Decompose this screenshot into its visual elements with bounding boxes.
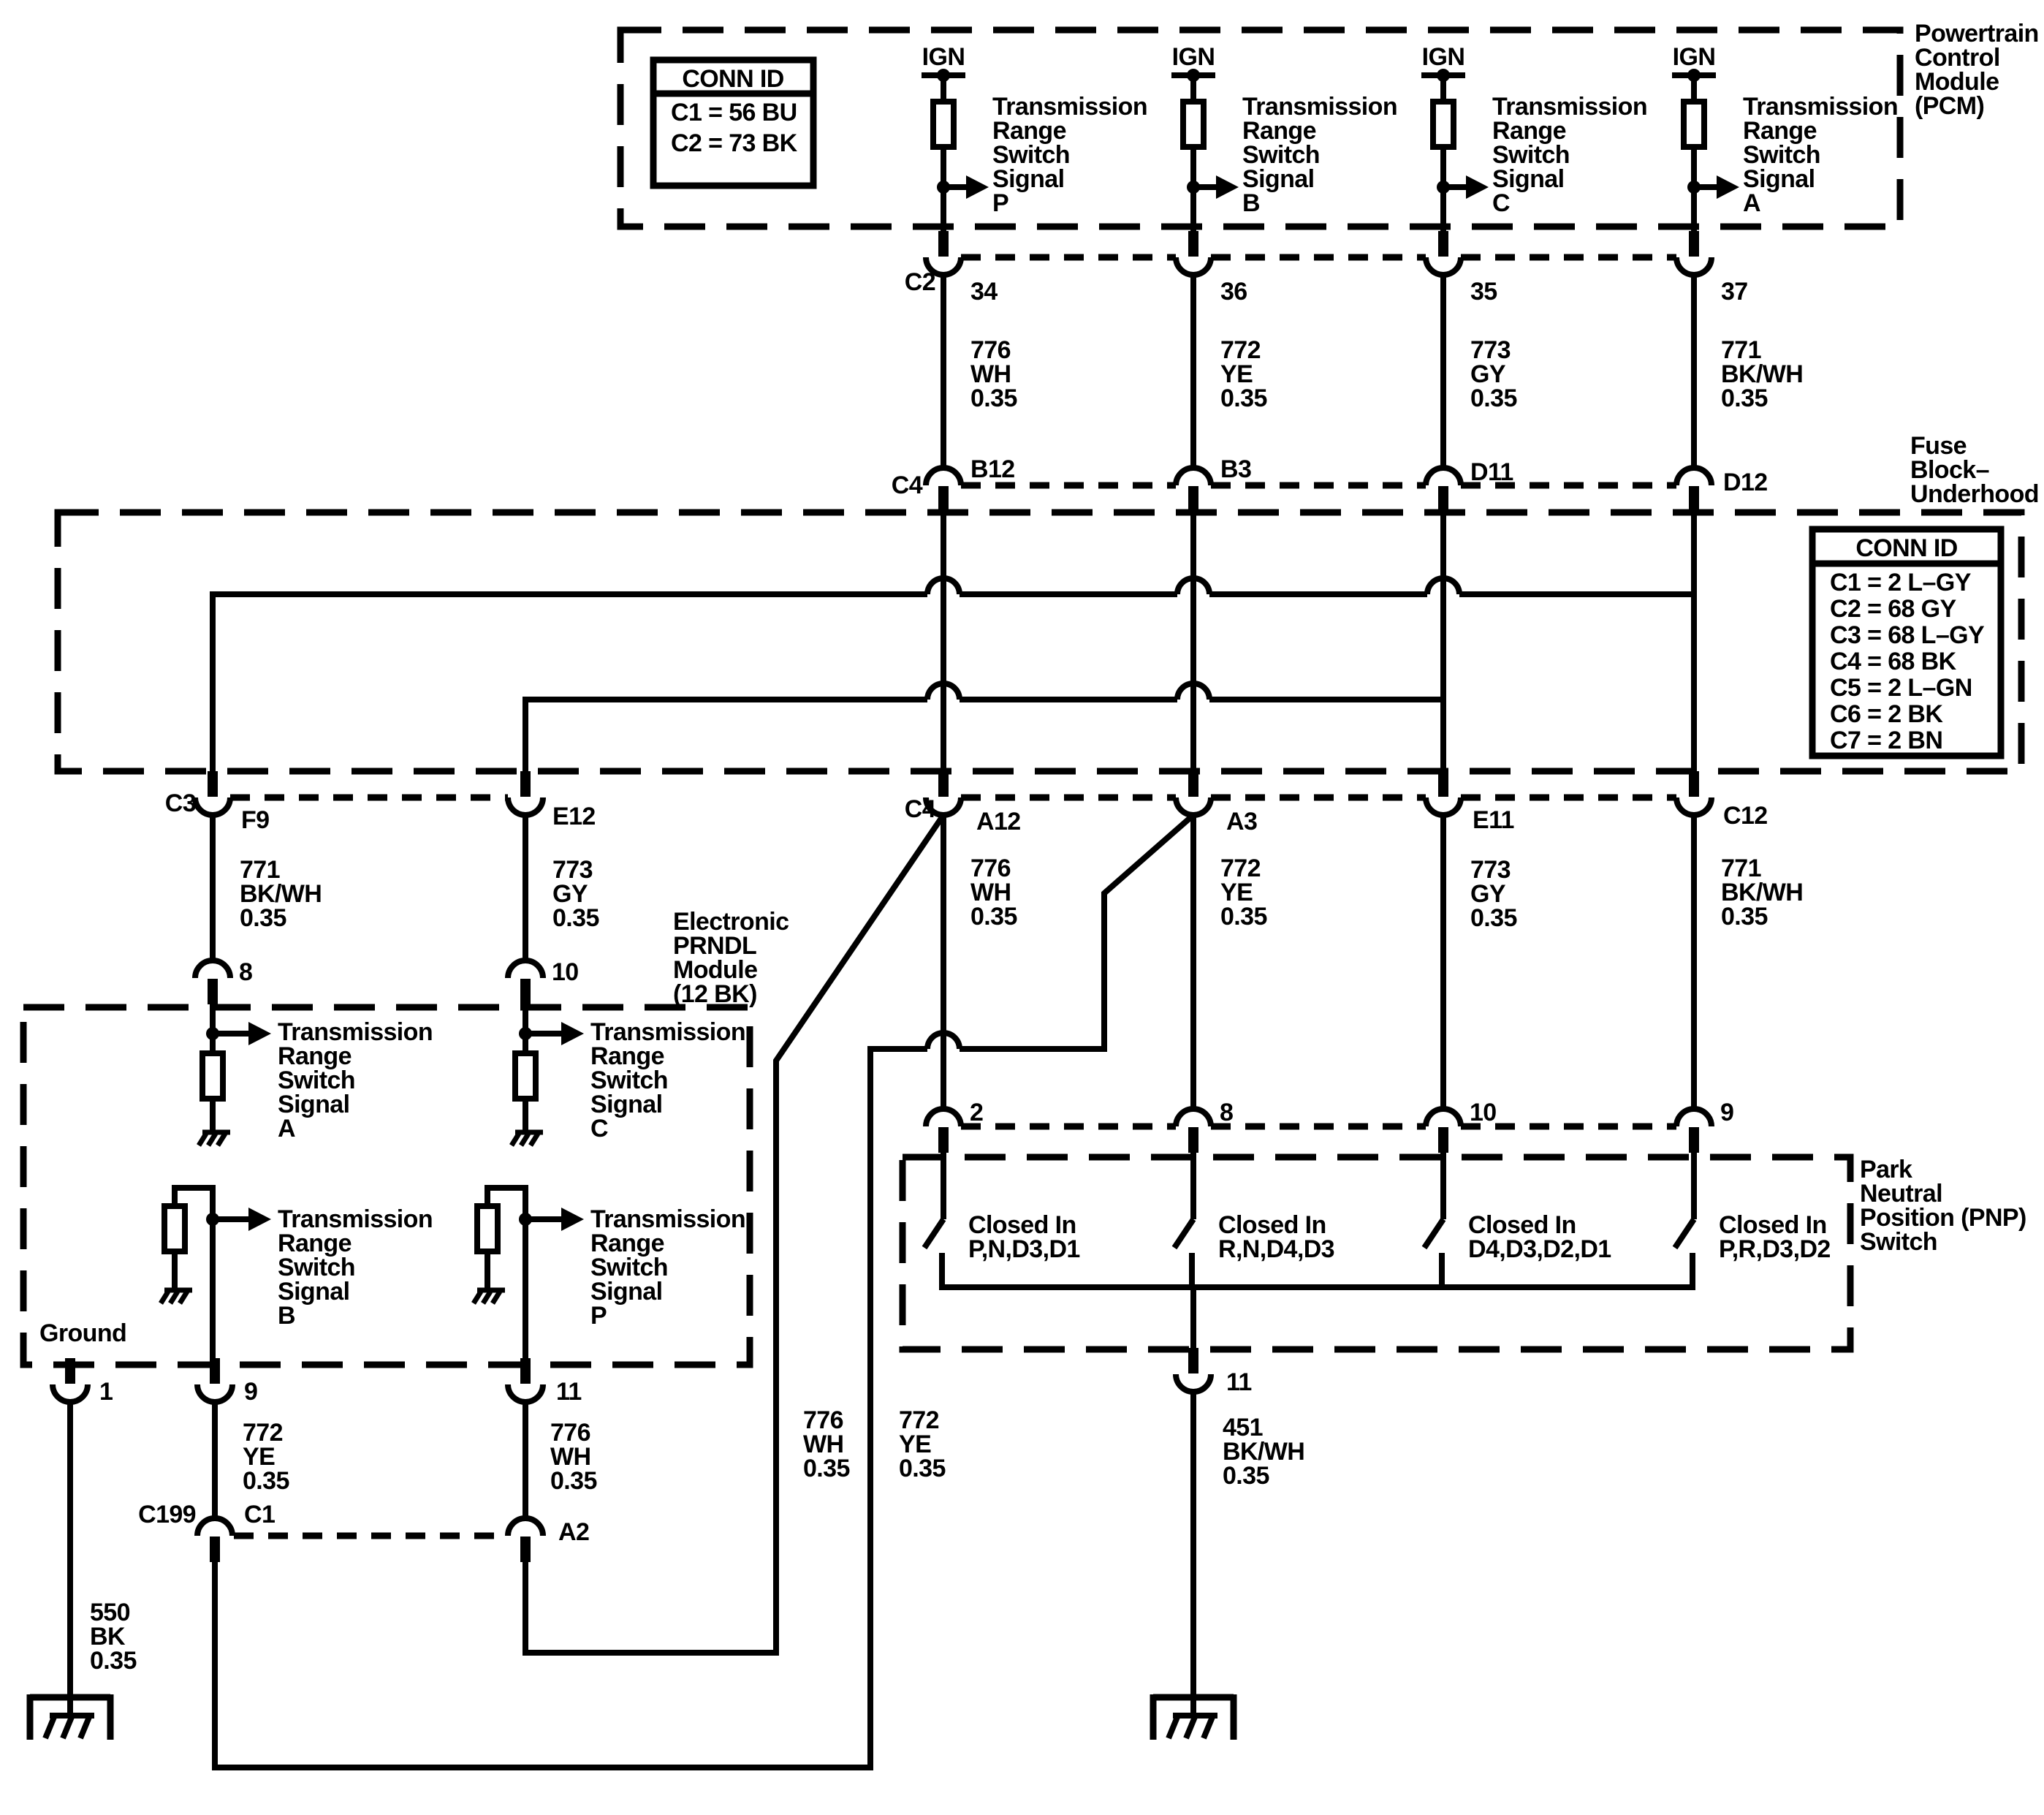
svg-text:E11: E11	[1473, 806, 1514, 834]
wire resistor to ground B	[172, 1251, 178, 1290]
svg-text:IGN: IGN	[922, 43, 965, 71]
switch blade 1	[924, 1219, 943, 1248]
svg-text:8: 8	[1220, 1099, 1233, 1126]
resistor signal C	[515, 1053, 536, 1099]
svg-text:IGN: IGN	[1172, 43, 1215, 71]
connector C199 pin A2	[520, 1537, 531, 1562]
signal arrow P	[519, 1213, 532, 1226]
resistor signal A	[202, 1053, 223, 1099]
svg-text:36: 36	[1220, 278, 1247, 306]
PNP connector dashed row	[961, 1124, 1176, 1130]
PNP switch box (dashed)	[903, 1157, 1850, 1349]
signal arrow A	[206, 1027, 219, 1040]
svg-text:9: 9	[244, 1378, 257, 1406]
PCM CONN ID box	[653, 60, 813, 186]
wire resistor to connector col2	[1190, 147, 1196, 232]
connector pin 10	[520, 979, 531, 1004]
svg-text:1: 1	[99, 1378, 113, 1406]
C4 lower dashed row	[961, 795, 1176, 801]
connector pin 8	[208, 979, 218, 1004]
switch blade 4	[1675, 1219, 1694, 1248]
svg-text:A2: A2	[558, 1518, 589, 1546]
wire col4 through fuse block	[1691, 512, 1697, 773]
IGN supply bar col1	[922, 72, 965, 78]
wire IGN to resistor col4	[1691, 75, 1697, 102]
resistor pull-up col3	[1433, 102, 1454, 147]
C2 connector dashed row	[961, 254, 1176, 261]
svg-text:CONN ID: CONN ID	[682, 65, 783, 93]
wire top tee B	[175, 1188, 213, 1206]
switch blade 2	[1174, 1219, 1193, 1248]
C4 upper dashed row	[961, 482, 1176, 489]
connector C4 pin B12	[938, 486, 949, 512]
svg-text:Closed InP,R,D3,D2: Closed InP,R,D3,D2	[1719, 1211, 1831, 1263]
connector C4 pin A12	[938, 771, 949, 797]
connector C4 pin A3	[1188, 771, 1198, 797]
signal arrow col2	[1187, 181, 1200, 194]
signal arrow B	[206, 1213, 219, 1226]
connector C4 pin D11	[1438, 486, 1448, 512]
svg-text:B12: B12	[970, 455, 1015, 483]
wire col2 through fuse block	[1190, 512, 1196, 773]
C3 dashed row	[230, 795, 508, 801]
switch top contact 1	[941, 1153, 946, 1219]
connector C2 pin 36	[1188, 231, 1198, 257]
wire bus to pin 11	[1190, 1287, 1196, 1349]
wire A12 to PNP pin 2	[941, 815, 946, 1110]
connector C3 pin F9	[208, 771, 218, 797]
wire A3 to PNP pin 8	[1190, 815, 1196, 1110]
wire IGN to resistor col2	[1190, 75, 1196, 102]
connector C4 pin C12	[1689, 771, 1699, 797]
signal arrow col1	[937, 181, 950, 194]
signal arrow col3	[1437, 181, 1450, 194]
connector C2 pin 37	[1689, 231, 1699, 257]
wire pin to junction C	[523, 1004, 528, 1053]
wire F9 to pin 8	[210, 815, 216, 961]
switch top contact 3	[1440, 1153, 1446, 1219]
wire 771 col4 upper	[1691, 275, 1697, 469]
wire pin9 to C199	[212, 1402, 218, 1519]
svg-text:Closed InP,N,D3,D1: Closed InP,N,D3,D1	[968, 1211, 1080, 1263]
connector C4 pin D12	[1689, 486, 1699, 512]
wire col3 through fuse block	[1440, 512, 1446, 773]
connector PNP pin 2	[938, 1127, 949, 1153]
svg-text:C4: C4	[905, 795, 936, 823]
svg-text:Closed InR,N,D4,D3: Closed InR,N,D4,D3	[1218, 1211, 1334, 1263]
connector C4 pin E11	[1438, 771, 1448, 797]
connector C2 pin 35	[1438, 231, 1448, 257]
svg-text:11: 11	[556, 1378, 582, 1406]
resistor signal B	[164, 1206, 185, 1251]
connector PNP pin 11	[1188, 1348, 1198, 1373]
resistor signal P	[477, 1206, 498, 1251]
PRNDL module box (dashed)	[23, 1007, 750, 1365]
svg-text:8: 8	[239, 958, 252, 986]
svg-text:C1: C1	[244, 1501, 275, 1528]
connector C2 pin 34	[938, 231, 949, 257]
switch blade 3	[1424, 1219, 1443, 1248]
ground symbol A	[202, 1130, 230, 1135]
C199 dashed row	[234, 1533, 508, 1539]
connector PNP pin 10	[1438, 1127, 1448, 1153]
IGN supply bar col3	[1421, 72, 1465, 78]
svg-text:776WH0.35: 776WH0.35	[970, 336, 1017, 412]
svg-text:A3: A3	[1226, 808, 1257, 835]
fuse internal wire 773 horizontal	[525, 700, 927, 773]
connector pin 11	[520, 1358, 531, 1384]
fuse internal wire 771 horizontal	[213, 594, 927, 773]
wire C12 to PNP pin 9	[1691, 815, 1697, 1110]
svg-text:C2 = 73 BK: C2 = 73 BK	[671, 129, 798, 157]
svg-text:2: 2	[970, 1099, 983, 1126]
ground symbol P	[477, 1288, 505, 1293]
svg-text:776WH0.35: 776WH0.35	[970, 855, 1017, 931]
resistor pull-up col4	[1684, 102, 1704, 147]
signal arrow C	[519, 1027, 532, 1040]
svg-text:10: 10	[1470, 1099, 1497, 1126]
wire resistor to connector col4	[1691, 147, 1697, 232]
svg-text:B3: B3	[1220, 455, 1251, 483]
svg-text:C12: C12	[1723, 802, 1768, 830]
wire main vertical B	[210, 1185, 216, 1359]
wire resistor to ground C	[523, 1099, 528, 1132]
wire 772 YE lower run	[215, 1049, 927, 1767]
wire IGN to resistor col1	[941, 75, 946, 102]
ground G103	[30, 1694, 110, 1701]
wire E11 to PNP pin 10	[1440, 815, 1446, 1110]
PNP common bus	[942, 1253, 1692, 1287]
svg-text:Ground: Ground	[39, 1319, 126, 1347]
switch top contact 2	[1190, 1153, 1196, 1219]
wire 772 YE diagonal from A3	[960, 815, 1193, 1049]
PCM module box (dashed)	[620, 30, 1900, 227]
svg-text:D11: D11	[1470, 458, 1513, 486]
svg-text:F9: F9	[241, 806, 269, 834]
signal arrow col4	[1687, 181, 1701, 194]
ground G107	[1153, 1694, 1234, 1701]
connector C199 pin C1	[210, 1537, 220, 1562]
svg-text:11: 11	[1226, 1368, 1252, 1396]
wire 776 col1 upper	[941, 275, 946, 469]
connector pin 1	[65, 1358, 75, 1384]
ground symbol B	[164, 1288, 192, 1293]
svg-text:D12: D12	[1723, 469, 1768, 496]
wire resistor to ground P	[485, 1251, 490, 1290]
wire E12 to pin 10	[523, 815, 528, 961]
svg-text:9: 9	[1720, 1099, 1733, 1126]
IGN supply bar col4	[1672, 72, 1716, 78]
svg-text:C1 = 56 BU: C1 = 56 BU	[671, 99, 797, 126]
connector PNP pin 9	[1689, 1127, 1699, 1153]
svg-text:CONN ID: CONN ID	[1855, 534, 1957, 562]
svg-text:776WH0.35: 776WH0.35	[550, 1419, 597, 1495]
connector C4 pin B3	[1188, 486, 1198, 512]
resistor pull-up col1	[933, 102, 954, 147]
svg-text:IGN: IGN	[1673, 43, 1716, 71]
switch bottom contact 2	[1189, 1253, 1195, 1287]
svg-text:C2: C2	[905, 268, 935, 296]
ground symbol C	[515, 1130, 543, 1135]
Fuse CONN ID box	[1812, 529, 2001, 756]
wire pin1 to ground	[67, 1402, 73, 1697]
svg-text:E12: E12	[552, 803, 596, 830]
Fuse Block box (dashed)	[58, 512, 2021, 771]
svg-text:C199: C199	[138, 1501, 196, 1528]
svg-text:776WH0.35: 776WH0.35	[803, 1406, 850, 1482]
switch bottom contact 3	[1439, 1253, 1445, 1287]
connector pin 9	[210, 1358, 220, 1384]
svg-text:C3: C3	[165, 789, 196, 817]
svg-text:C4: C4	[892, 471, 923, 499]
svg-text:37: 37	[1721, 278, 1748, 306]
svg-text:34: 34	[970, 278, 998, 306]
connector C3 pin E12	[520, 771, 531, 797]
wire IGN to resistor col3	[1440, 75, 1446, 102]
wire main vertical P	[523, 1185, 528, 1359]
wire pin11 to ground	[1190, 1392, 1196, 1697]
wire 776 WH diagonal from A12	[525, 815, 943, 1653]
wire resistor to connector col3	[1440, 147, 1446, 232]
wire pin11 to C199 A2	[523, 1402, 528, 1519]
switch top contact 4	[1691, 1153, 1697, 1219]
wire 773 col3 upper	[1440, 275, 1446, 469]
wire pin to junction A	[210, 1004, 216, 1053]
connector PNP pin 8	[1188, 1127, 1198, 1153]
resistor pull-up col2	[1183, 102, 1204, 147]
wire resistor to ground A	[210, 1099, 216, 1132]
svg-text:IGN: IGN	[1422, 43, 1465, 71]
IGN supply bar col2	[1171, 72, 1215, 78]
wire 772 col2 upper	[1190, 275, 1196, 469]
svg-text:A12: A12	[976, 808, 1021, 835]
svg-text:10: 10	[552, 958, 579, 986]
wire resistor to connector col1	[941, 147, 946, 232]
wire col1 through fuse block	[941, 512, 946, 773]
wire top tee P	[487, 1188, 525, 1206]
svg-text:35: 35	[1470, 278, 1497, 306]
